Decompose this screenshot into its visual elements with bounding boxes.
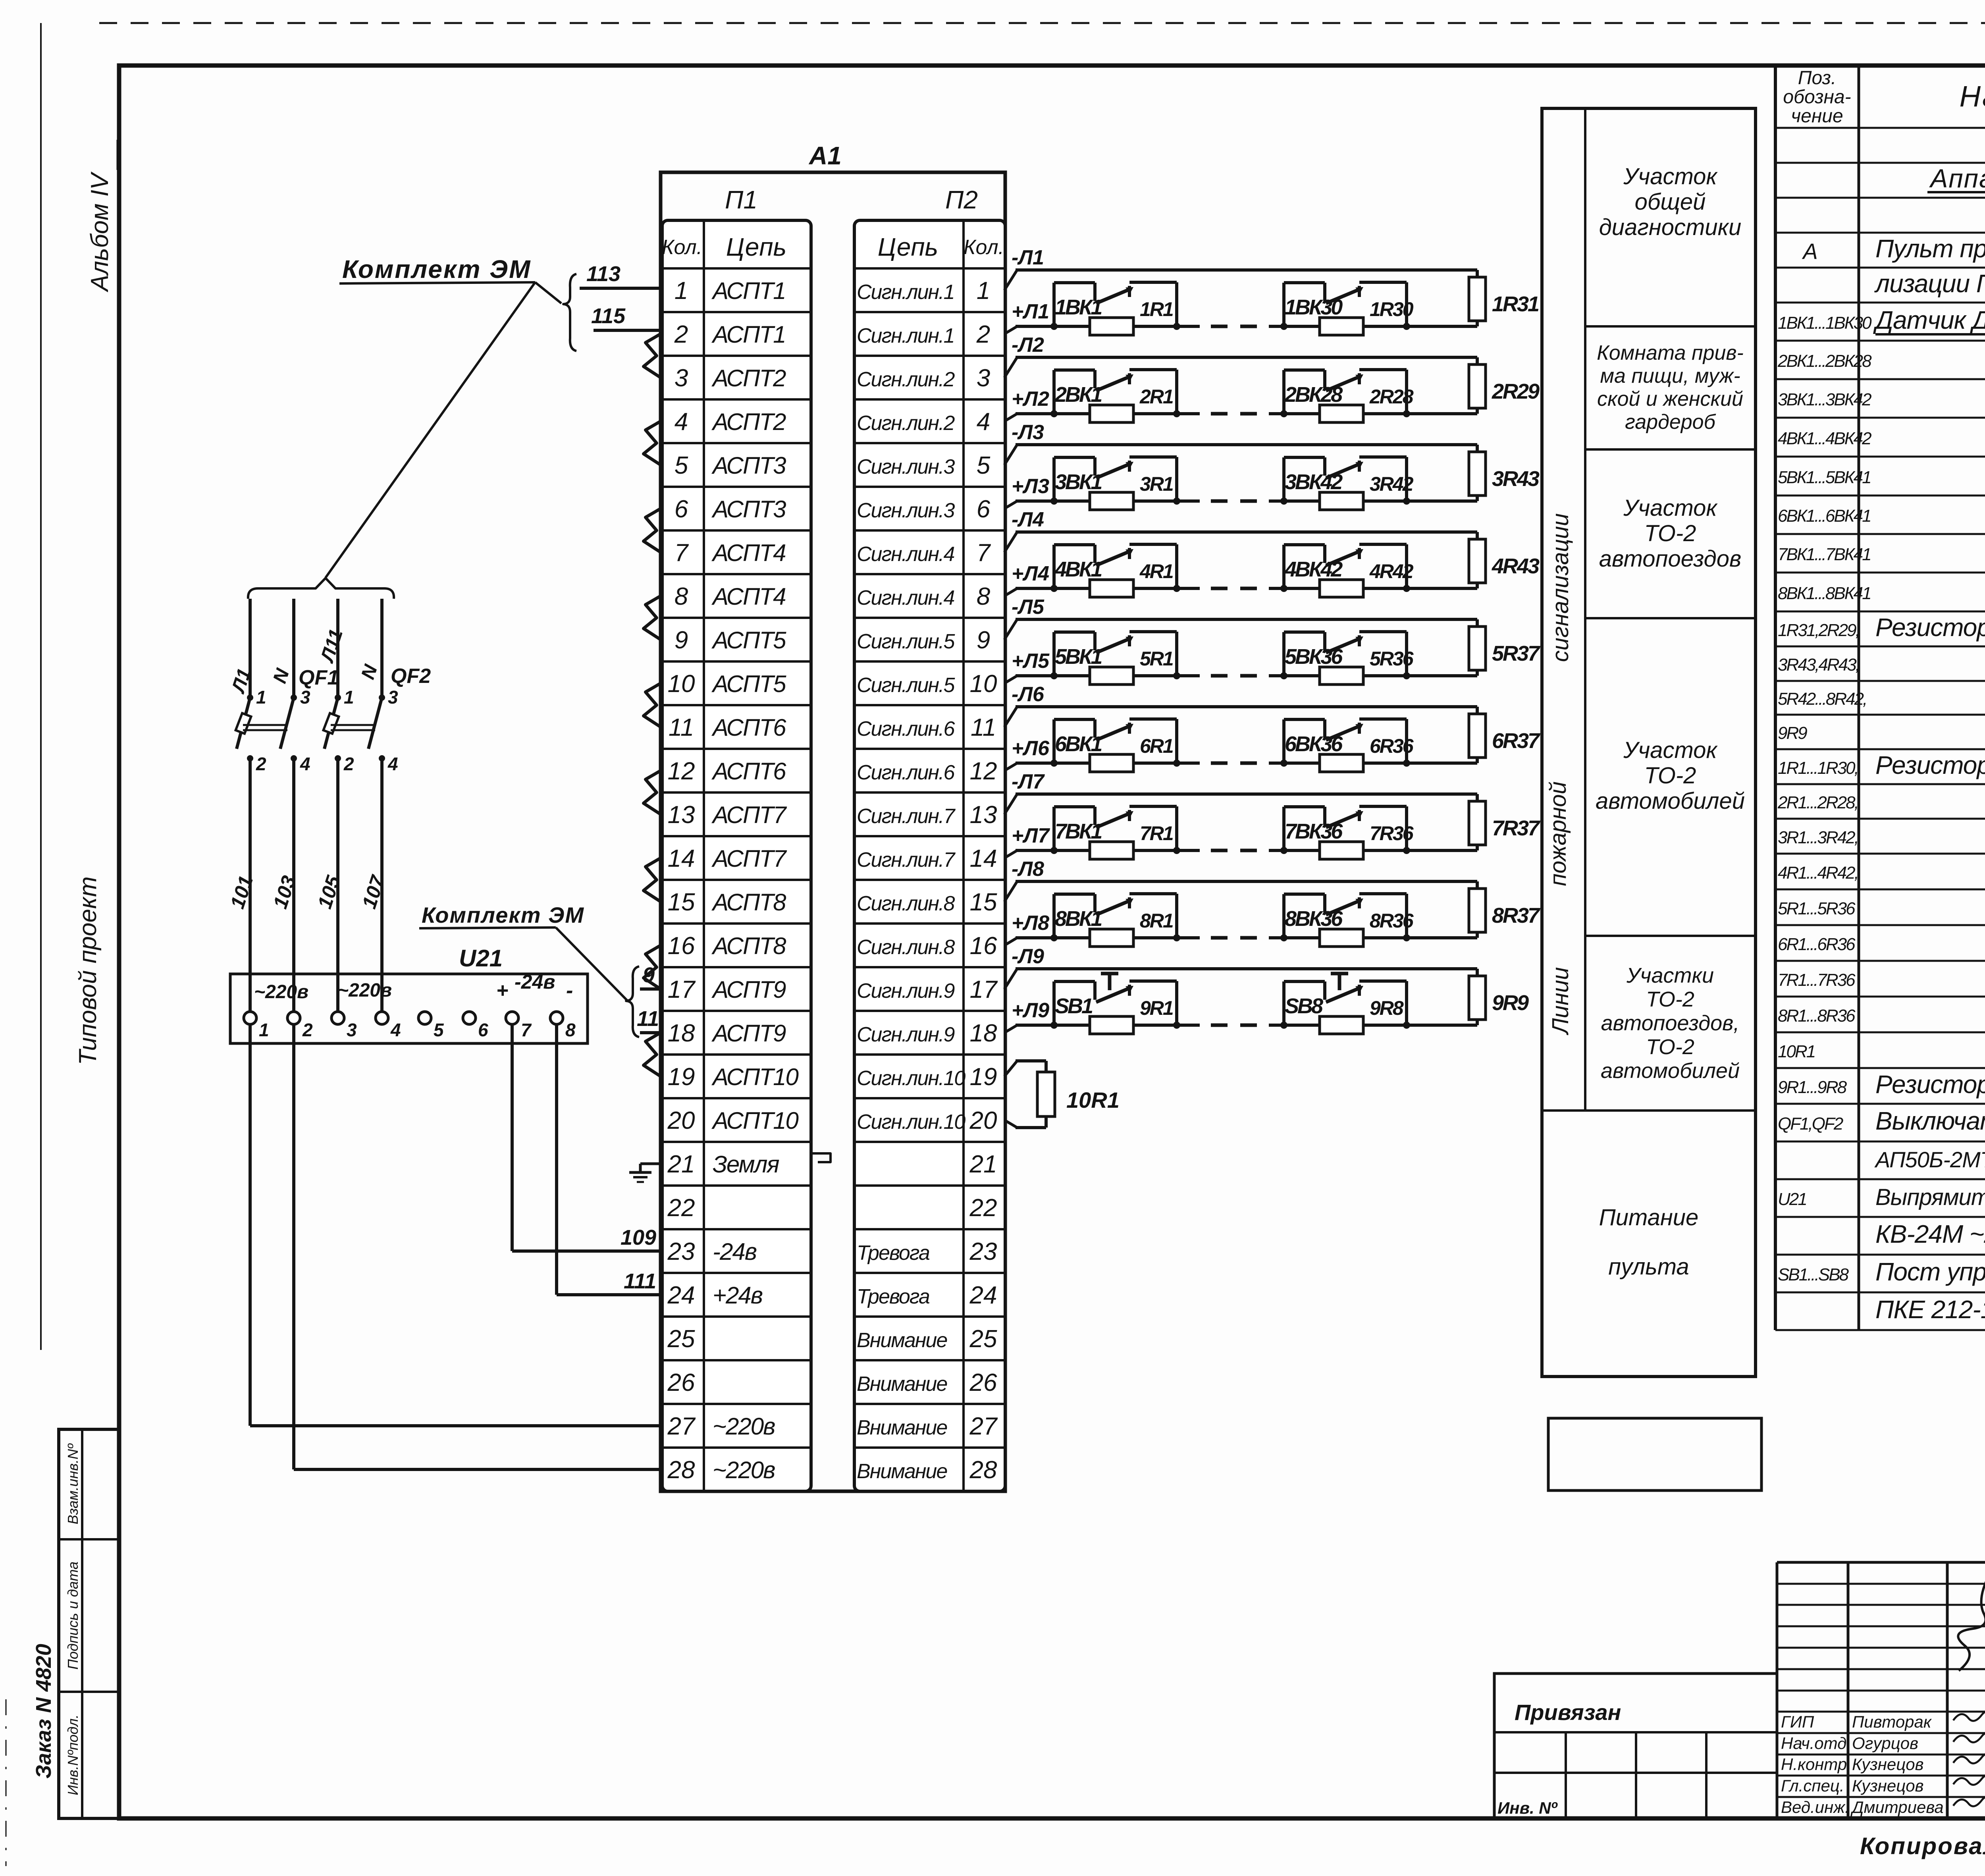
svg-text:8: 8 [977,583,991,610]
svg-text:8ВК36: 8ВК36 [1285,907,1343,931]
svg-text:14: 14 [970,845,997,872]
svg-text:гардероб: гардероб [1625,411,1716,434]
svg-text:5R1...5R36: 5R1...5R36 [1778,899,1856,918]
svg-text:8: 8 [675,583,688,610]
svg-text:Сигн.лин.4: Сигн.лин.4 [857,586,954,609]
svg-text:8R1: 8R1 [1140,910,1173,932]
svg-text:9R1...9R8: 9R1...9R8 [1778,1078,1847,1097]
svg-text:Сигн.лин.7: Сигн.лин.7 [857,848,956,871]
svg-text:115: 115 [591,304,626,328]
svg-text:-Л2: -Л2 [1012,334,1044,357]
svg-text:21: 21 [969,1151,997,1178]
svg-text:U21: U21 [1778,1190,1806,1209]
svg-text:19: 19 [970,1063,997,1091]
svg-text:12: 12 [668,758,695,785]
svg-text:Сигн.лин.3: Сигн.лин.3 [857,455,955,478]
svg-text:8ВК1...8ВК41: 8ВК1...8ВК41 [1778,584,1871,603]
svg-text:23: 23 [969,1238,997,1265]
svg-text:6: 6 [478,1020,488,1040]
svg-text:5ВК1...5ВК41: 5ВК1...5ВК41 [1778,468,1871,487]
svg-text:16: 16 [970,932,997,960]
svg-text:Тревога: Тревога [857,1285,930,1308]
svg-text:Сигн.лин.10: Сигн.лин.10 [857,1111,966,1134]
svg-text:26: 26 [969,1369,997,1396]
svg-text:3: 3 [388,687,398,708]
svg-text:ТО-2: ТО-2 [1644,763,1696,789]
svg-text:6: 6 [675,496,688,523]
svg-text:Кол.: Кол. [964,236,1004,259]
svg-text:+Л9: +Л9 [1012,999,1049,1022]
svg-text:SВ1: SВ1 [1055,994,1093,1018]
svg-text:2ВК1: 2ВК1 [1054,383,1102,407]
svg-text:Сигн.лин.10: Сигн.лин.10 [857,1067,966,1090]
svg-text:Пульт приемный пожарной сигна-: Пульт приемный пожарной сигна- [1875,234,1985,263]
svg-text:Заказ N 4820: Заказ N 4820 [32,1644,56,1778]
svg-text:АСПТ3: АСПТ3 [711,452,786,479]
svg-text:18: 18 [668,1020,695,1047]
svg-text:9R9: 9R9 [1778,723,1807,743]
svg-text:Сигн.лин.1: Сигн.лин.1 [857,281,954,304]
svg-text:9: 9 [643,963,655,987]
svg-text:пульта: пульта [1608,1254,1689,1280]
svg-text:2R28: 2R28 [1369,386,1414,408]
svg-text:Огурцов: Огурцов [1852,1734,1918,1753]
svg-text:-: - [566,979,573,1002]
svg-text:ГИП: ГИП [1781,1712,1814,1731]
svg-text:ТО-2: ТО-2 [1644,521,1696,546]
svg-text:3R43: 3R43 [1492,467,1540,491]
svg-text:7: 7 [977,539,991,567]
svg-text:АСПТ8: АСПТ8 [711,889,786,916]
svg-text:12: 12 [970,758,997,785]
svg-text:27: 27 [969,1413,998,1440]
svg-text:+Л8: +Л8 [1012,912,1049,935]
svg-text:6R1: 6R1 [1140,735,1173,757]
svg-text:8R1...8R36: 8R1...8R36 [1778,1006,1856,1026]
svg-text:26: 26 [667,1369,695,1396]
svg-text:1: 1 [259,1020,269,1040]
svg-text:25: 25 [667,1325,695,1353]
svg-text:7ВК1: 7ВК1 [1055,819,1102,843]
svg-text:5R37: 5R37 [1492,642,1541,665]
svg-text:2: 2 [674,321,688,348]
svg-text:Сигн.лин.6: Сигн.лин.6 [857,717,955,740]
svg-text:Вед.инж.: Вед.инж. [1781,1798,1850,1816]
svg-text:15: 15 [668,889,695,916]
svg-text:21: 21 [667,1151,695,1178]
svg-text:2R1...2R28,: 2R1...2R28, [1777,793,1858,812]
svg-text:Резистор МЛТ-0,5-2ком ±5%: Резистор МЛТ-0,5-2ком ±5% [1875,751,1985,779]
svg-text:7R36: 7R36 [1370,822,1414,844]
svg-text:4: 4 [300,754,310,774]
svg-text:20: 20 [667,1107,695,1134]
svg-text:КВ-24М ~220/=24в: КВ-24М ~220/=24в [1875,1220,1985,1248]
svg-text:9: 9 [675,627,688,654]
svg-text:+24в: +24в [713,1282,763,1309]
svg-text:22: 22 [969,1194,997,1222]
svg-text:Резистор МЛТ-0,5-1,5ком±5%: Резистор МЛТ-0,5-1,5ком±5% [1875,613,1985,642]
svg-text:АСПТ10: АСПТ10 [711,1107,798,1134]
svg-text:16: 16 [668,932,695,960]
svg-text:4: 4 [387,754,398,774]
svg-text:Участок: Участок [1623,164,1718,189]
svg-text:Сигн.лин.8: Сигн.лин.8 [857,892,955,915]
svg-text:1ВК1: 1ВК1 [1055,295,1102,319]
svg-text:10: 10 [970,670,997,698]
svg-text:1: 1 [977,277,990,305]
svg-text:Кол.: Кол. [662,236,702,259]
svg-text:2ВК28: 2ВК28 [1284,383,1343,407]
svg-text:+Л3: +Л3 [1012,475,1049,498]
svg-text:10R1: 10R1 [1066,1087,1120,1112]
svg-text:3R1: 3R1 [1140,473,1173,495]
svg-text:6: 6 [977,496,991,523]
svg-text:5R36: 5R36 [1370,648,1414,670]
svg-text:Внимание: Внимание [857,1460,947,1483]
svg-text:Взам.инв.Nº: Взам.инв.Nº [65,1443,81,1525]
svg-text:-Л1: -Л1 [1012,246,1044,269]
svg-text:обозна-: обозна- [1783,87,1851,108]
svg-text:+Л6: +Л6 [1012,737,1050,760]
svg-text:+Л5: +Л5 [1012,650,1050,673]
svg-text:сигнализации: сигнализации [1548,513,1573,662]
svg-text:13: 13 [970,801,997,829]
svg-text:-Л3: -Л3 [1012,421,1044,444]
svg-text:4ВК1: 4ВК1 [1054,557,1102,581]
svg-text:Резистор МЛТ-0,5-4ком±5%: Резистор МЛТ-0,5-4ком±5% [1875,1070,1985,1099]
svg-text:+Л4: +Л4 [1012,562,1049,585]
svg-text:9R8: 9R8 [1370,997,1404,1019]
svg-text:28: 28 [667,1456,695,1484]
svg-text:Сигн.лин.8: Сигн.лин.8 [857,936,955,959]
svg-text:7ВК36: 7ВК36 [1285,819,1343,843]
svg-text:109: 109 [621,1226,656,1249]
svg-text:АСПТ8: АСПТ8 [711,933,786,959]
svg-text:АСПТ9: АСПТ9 [711,1020,786,1047]
svg-text:Поз.: Поз. [1798,67,1837,89]
svg-text:5ВК36: 5ВК36 [1285,645,1343,669]
svg-text:Сигн.лин.3: Сигн.лин.3 [857,499,955,522]
svg-text:4R43: 4R43 [1492,554,1540,578]
svg-text:7ВК1...7ВК41: 7ВК1...7ВК41 [1778,545,1871,564]
svg-text:Тревога: Тревога [857,1242,930,1265]
svg-text:автопоездов: автопоездов [1599,546,1741,572]
svg-text:Альбом IV: Альбом IV [86,171,114,293]
svg-text:АСПТ10: АСПТ10 [711,1064,798,1090]
svg-text:ской и женский: ской и женский [1597,388,1743,411]
svg-text:18: 18 [970,1020,997,1047]
svg-text:10R1: 10R1 [1778,1042,1815,1061]
svg-text:Подпись и дата: Подпись и дата [65,1562,81,1670]
svg-text:Цепь: Цепь [726,233,786,261]
svg-text:АСПТ1: АСПТ1 [711,278,785,304]
svg-text:113: 113 [586,262,621,286]
svg-text:АСПТ9: АСПТ9 [711,976,786,1003]
svg-text:4: 4 [390,1020,401,1040]
svg-text:28: 28 [969,1456,997,1484]
svg-text:7: 7 [521,1020,532,1040]
svg-text:17: 17 [970,976,998,1003]
svg-text:Сигн.лин.7: Сигн.лин.7 [857,805,956,828]
svg-text:23: 23 [667,1238,695,1265]
svg-text:А: А [1802,239,1817,264]
svg-text:Пост управления кнопочный: Пост управления кнопочный [1875,1257,1985,1286]
svg-text:Комплект ЭМ: Комплект ЭМ [422,902,584,927]
svg-text:5: 5 [434,1020,444,1040]
svg-text:1: 1 [344,687,354,708]
svg-text:АСПТ4: АСПТ4 [711,540,786,566]
svg-text:Выпрямитель стабилизированный: Выпрямитель стабилизированный [1875,1184,1985,1210]
svg-text:Сигн.лин.6: Сигн.лин.6 [857,761,955,784]
svg-text:SВ1...SВ8: SВ1...SВ8 [1778,1265,1849,1284]
svg-text:QF2: QF2 [391,665,431,688]
svg-text:Инв.Nºподл.: Инв.Nºподл. [65,1714,81,1795]
svg-text:8ВК1: 8ВК1 [1055,907,1102,931]
svg-text:-Л8: -Л8 [1012,858,1044,881]
svg-text:11: 11 [971,714,996,741]
svg-text:П2: П2 [945,185,978,214]
svg-text:3ВК1...3ВК42: 3ВК1...3ВК42 [1778,390,1871,409]
svg-text:Кузнецов: Кузнецов [1852,1755,1924,1774]
svg-text:~220в: ~220в [254,981,308,1003]
svg-text:ПКЕ 212-1УЗ: ПКЕ 212-1УЗ [1875,1295,1985,1324]
svg-text:5: 5 [675,452,688,479]
svg-text:+Л1: +Л1 [1012,300,1049,323]
svg-text:5R42...8R42,: 5R42...8R42, [1778,689,1866,709]
svg-text:-Л7: -Л7 [1012,770,1045,793]
svg-text:Внимание: Внимание [857,1373,947,1396]
svg-text:3: 3 [300,687,310,708]
svg-text:-24в: -24в [515,971,555,993]
svg-text:2ВК1...2ВК28: 2ВК1...2ВК28 [1777,351,1872,371]
svg-text:Питание: Питание [1599,1205,1699,1230]
svg-text:9: 9 [977,627,990,654]
svg-text:-Л9: -Л9 [1012,945,1044,968]
svg-text:QF1,QF2: QF1,QF2 [1778,1114,1843,1134]
svg-text:3ВК1: 3ВК1 [1055,470,1102,494]
svg-text:Сигн.лин.9: Сигн.лин.9 [857,979,954,1003]
svg-text:1R31: 1R31 [1492,292,1539,316]
svg-text:9R1: 9R1 [1140,997,1173,1019]
svg-text:АСПТ5: АСПТ5 [711,627,786,654]
svg-text:чение: чение [1791,106,1843,127]
svg-text:Аппаратура по месту: Аппаратура по месту [1929,164,1985,193]
svg-text:Кузнецов: Кузнецов [1852,1776,1924,1795]
svg-text:14: 14 [668,845,695,872]
svg-text:4R42: 4R42 [1369,560,1414,582]
svg-text:~220в: ~220в [713,1413,775,1440]
svg-text:27: 27 [667,1413,696,1440]
svg-text:10: 10 [668,670,695,698]
svg-text:Участок: Участок [1623,495,1718,521]
svg-text:Сигн.лин.5: Сигн.лин.5 [857,630,955,653]
svg-text:АСПТ7: АСПТ7 [711,845,787,872]
svg-text:4ВК42: 4ВК42 [1284,557,1343,581]
svg-text:Инв. Nº: Инв. Nº [1497,1799,1558,1817]
svg-text:2R1: 2R1 [1139,386,1173,408]
svg-text:Сигн.лин.1: Сигн.лин.1 [857,324,954,347]
svg-text:Копировал Волкова: Копировал Волкова [1860,1833,1985,1859]
svg-text:ТО-2: ТО-2 [1646,1035,1694,1059]
svg-text:9R9: 9R9 [1492,991,1529,1015]
svg-text:Пивторак: Пивторак [1852,1712,1932,1731]
svg-text:1R31,2R29,: 1R31,2R29, [1778,621,1859,640]
svg-text:QF1: QF1 [299,666,339,689]
svg-text:U21: U21 [459,945,503,972]
svg-text:П1: П1 [725,185,757,214]
svg-text:Привязан: Привязан [1515,1700,1621,1725]
svg-text:Цепь: Цепь [878,233,938,261]
svg-text:ма пищи, муж-: ма пищи, муж- [1600,364,1740,388]
svg-text:Сигн.лин.9: Сигн.лин.9 [857,1023,954,1046]
svg-text:1ВК1...1ВК30: 1ВК1...1ВК30 [1778,313,1872,333]
svg-text:8: 8 [565,1020,576,1040]
svg-text:1: 1 [256,687,266,708]
svg-text:АСПТ1: АСПТ1 [711,321,785,348]
svg-text:1R1: 1R1 [1140,298,1173,320]
svg-text:15: 15 [970,889,997,916]
svg-text:1: 1 [675,277,688,305]
svg-text:4R1...4R42,: 4R1...4R42, [1778,863,1858,883]
svg-text:Участки: Участки [1626,964,1714,987]
svg-text:-Л4: -Л4 [1012,508,1044,531]
svg-text:автопоездов,: автопоездов, [1601,1011,1740,1035]
svg-text:5ВК1: 5ВК1 [1055,645,1102,669]
svg-text:111: 111 [624,1269,656,1293]
svg-text:3R42: 3R42 [1370,473,1414,495]
svg-text:Датчик ДТЛ: Датчик ДТЛ [1873,306,1985,334]
svg-text:Сигн.лин.5: Сигн.лин.5 [857,674,955,697]
svg-text:4: 4 [675,408,688,436]
svg-text:7: 7 [675,539,689,567]
svg-text:4R1: 4R1 [1139,560,1173,582]
svg-text:АСПТ5: АСПТ5 [711,671,786,697]
svg-text:ТО-2: ТО-2 [1646,987,1694,1011]
svg-text:пожарной: пожарной [1545,781,1571,886]
svg-text:Типовой проект: Типовой проект [74,876,102,1065]
svg-text:24: 24 [667,1282,695,1309]
svg-text:-Л6: -Л6 [1012,683,1045,706]
svg-text:6R36: 6R36 [1370,735,1414,757]
svg-text:Н.контр.: Н.контр. [1781,1755,1852,1774]
svg-text:25: 25 [969,1325,997,1353]
svg-text:22: 22 [667,1194,695,1222]
svg-text:7R1...7R36: 7R1...7R36 [1778,970,1856,990]
svg-text:7R37: 7R37 [1492,816,1541,840]
svg-text:Дмитриева: Дмитриева [1850,1798,1944,1816]
svg-text:Участок: Участок [1623,737,1718,763]
svg-text:11: 11 [637,1007,659,1031]
svg-text:диагностики: диагностики [1599,214,1742,240]
svg-text:Сигн.лин.2: Сигн.лин.2 [857,412,955,435]
svg-text:20: 20 [969,1107,997,1134]
svg-text:7R1: 7R1 [1140,822,1173,844]
svg-text:13: 13 [668,801,695,829]
svg-text:А1: А1 [808,141,842,170]
svg-text:2R29: 2R29 [1492,380,1540,403]
svg-text:4: 4 [977,408,990,436]
svg-text:Внимание: Внимание [857,1329,947,1352]
svg-text:автомобилей: автомобилей [1596,788,1745,814]
svg-text:+: + [496,979,508,1002]
svg-text:11: 11 [669,714,694,741]
svg-text:-Л5: -Л5 [1012,596,1045,619]
svg-text:Гл.спец.: Гл.спец. [1781,1776,1844,1795]
svg-text:3R43,4R43,: 3R43,4R43, [1778,655,1859,675]
svg-text:АСПТ7: АСПТ7 [711,802,787,828]
svg-text:SВ8: SВ8 [1285,994,1323,1018]
svg-text:автомобилей: автомобилей [1601,1059,1740,1083]
svg-text:~220в: ~220в [713,1457,775,1483]
svg-text:2: 2 [302,1020,313,1040]
svg-text:6ВК1: 6ВК1 [1055,732,1102,756]
svg-text:5: 5 [977,452,991,479]
svg-text:Нач.отд: Нач.отд [1781,1734,1846,1753]
svg-text:3: 3 [675,364,688,392]
svg-text:-24в: -24в [713,1238,757,1265]
svg-text:АП50Б-2МТ,Iн.р=4А,Iотс,=3,5Iн.: АП50Б-2МТ,Iн.р=4А,Iотс,=3,5Iн.р [1874,1147,1985,1172]
svg-text:3: 3 [977,364,990,392]
svg-text:5R1: 5R1 [1140,648,1173,670]
svg-text:17: 17 [668,976,696,1003]
svg-text:+Л2: +Л2 [1012,388,1049,411]
svg-text:Выключатель автоматический: Выключатель автоматический [1875,1107,1985,1135]
svg-text:2: 2 [343,754,354,774]
svg-text:2: 2 [256,754,266,774]
svg-text:АСПТ2: АСПТ2 [711,409,786,435]
svg-text:3R1...3R42,: 3R1...3R42, [1778,828,1858,847]
svg-text:АСПТ3: АСПТ3 [711,496,786,523]
svg-text:1R30: 1R30 [1370,298,1414,320]
svg-text:~220в: ~220в [337,980,392,1001]
svg-text:24: 24 [969,1282,997,1309]
svg-text:2: 2 [976,321,990,348]
svg-text:4ВК1...4ВК42: 4ВК1...4ВК42 [1778,429,1871,448]
svg-text:3ВК42: 3ВК42 [1285,470,1343,494]
svg-text:8R36: 8R36 [1370,910,1414,932]
svg-text:19: 19 [668,1063,695,1091]
svg-text:Внимание: Внимание [857,1416,947,1439]
svg-text:6R1...6R36: 6R1...6R36 [1778,935,1856,954]
svg-text:Наименование: Наименование [1960,80,1985,113]
svg-text:АСПТ2: АСПТ2 [711,365,786,391]
svg-text:Земля: Земля [713,1151,779,1178]
svg-text:6ВК1...6ВК41: 6ВК1...6ВК41 [1778,506,1871,526]
svg-text:6R37: 6R37 [1492,729,1541,753]
svg-text:АСПТ4: АСПТ4 [711,583,786,610]
svg-text:АСПТ6: АСПТ6 [711,758,786,785]
svg-text:+Л7: +Л7 [1012,824,1050,847]
svg-text:8R37: 8R37 [1492,904,1541,927]
svg-text:общей: общей [1635,189,1706,215]
svg-text:лизации ППС-1: лизации ППС-1 [1874,269,1985,298]
svg-text:АСПТ6: АСПТ6 [711,714,786,741]
svg-text:3: 3 [347,1020,357,1040]
svg-text:Линии: Линии [1548,967,1573,1035]
svg-text:Комната прив-: Комната прив- [1597,341,1744,364]
svg-text:Сигн.лин.2: Сигн.лин.2 [857,368,955,391]
svg-text:Сигн.лин.4: Сигн.лин.4 [857,543,954,566]
svg-text:Комплект ЭМ: Комплект ЭМ [342,255,531,283]
svg-text:6ВК36: 6ВК36 [1285,732,1343,756]
svg-text:1ВК30: 1ВК30 [1285,295,1343,319]
svg-text:1R1...1R30,: 1R1...1R30, [1778,758,1858,778]
